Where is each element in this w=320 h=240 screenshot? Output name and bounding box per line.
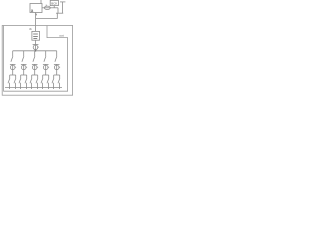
branch B1 xyxy=(8,51,16,89)
switch S3b xyxy=(30,78,32,83)
node split B5 xyxy=(54,74,60,76)
current source M2 xyxy=(21,63,27,65)
wire label to output xyxy=(53,6,55,8)
wire left leg B3 xyxy=(31,75,33,78)
current source M5 xyxy=(54,63,60,65)
current source M4 xyxy=(43,63,49,65)
wire left leg B2 xyxy=(20,75,22,78)
wire output xyxy=(42,7,58,9)
switch S3a xyxy=(33,56,35,62)
wire left tail B3 xyxy=(31,83,33,89)
switch S5b xyxy=(52,78,54,83)
wire left leg B4 xyxy=(42,75,44,78)
wire left tail B2 xyxy=(20,83,22,89)
wire left tail B1 xyxy=(9,83,11,89)
switch S3c xyxy=(36,78,38,83)
node split B3 xyxy=(32,74,38,76)
switch S1b xyxy=(8,78,10,83)
wire left tail B4 xyxy=(42,83,44,89)
wire xyxy=(35,40,37,44)
current source M1 xyxy=(10,63,16,65)
wire left tail B5 xyxy=(53,83,55,89)
bottom bus xyxy=(5,86,62,88)
switch S5c xyxy=(58,78,60,83)
branch B3 xyxy=(30,51,38,89)
arrow xyxy=(35,14,37,16)
switch S2b xyxy=(19,78,21,83)
wire right leg B1 xyxy=(15,75,17,78)
outer box xyxy=(2,26,72,96)
wire right leg B5 xyxy=(59,75,61,78)
current source M3 xyxy=(32,63,38,65)
wire input top xyxy=(40,0,42,4)
current source I1 xyxy=(44,6,50,9)
node split B2 xyxy=(21,74,27,76)
wire right leg B2 xyxy=(26,75,28,78)
branch B5 xyxy=(52,51,60,89)
svg-text:ib: ib xyxy=(29,27,32,31)
node bus junction xyxy=(35,50,37,52)
switch S2c xyxy=(25,78,27,83)
inner box xyxy=(4,26,68,92)
wire stem B5 xyxy=(56,51,58,56)
wire right leg B3 xyxy=(37,75,39,78)
switch S4c xyxy=(47,78,49,83)
wire right tail B3 xyxy=(37,83,39,89)
bias source circle xyxy=(33,43,39,45)
wire left leg B5 xyxy=(53,75,55,78)
wire right tail B2 xyxy=(26,83,28,89)
switch S1a xyxy=(11,56,13,62)
background xyxy=(0,0,77,100)
switch S4b xyxy=(41,78,43,83)
wire right tail B5 xyxy=(59,83,61,89)
branch B2 xyxy=(19,51,27,89)
switch S4a xyxy=(44,56,46,62)
wire stem B3 xyxy=(34,51,36,56)
gate wire xyxy=(36,18,58,20)
wire right tail B1 xyxy=(15,83,17,89)
transistor Q1 xyxy=(56,12,63,14)
wire left leg B1 xyxy=(9,75,11,78)
wire stem B1 xyxy=(12,51,14,56)
svg-text:a: a xyxy=(31,8,34,13)
svg-text:BCK: BCK xyxy=(51,1,57,5)
node split B1 xyxy=(10,74,16,76)
wire right tail B4 xyxy=(48,83,50,89)
wire stem B4 xyxy=(45,51,47,56)
bias box text xyxy=(33,34,38,39)
wire op-amp down xyxy=(35,13,37,32)
branch cells xyxy=(5,51,62,89)
wire right leg B4 xyxy=(48,75,50,78)
switch S1c xyxy=(14,78,16,83)
label box BCK xyxy=(50,0,58,5)
op-amp U1 xyxy=(30,4,42,13)
wire stem B2 xyxy=(23,51,25,56)
node split B4 xyxy=(43,74,49,76)
branch B4 xyxy=(41,51,49,89)
wire down right xyxy=(57,8,59,13)
bias box xyxy=(32,31,40,40)
switch S5a xyxy=(55,56,57,62)
svg-text:out: out xyxy=(59,34,63,38)
VDD rail xyxy=(62,2,64,13)
switch S2a xyxy=(22,56,24,62)
main bus xyxy=(13,50,57,52)
